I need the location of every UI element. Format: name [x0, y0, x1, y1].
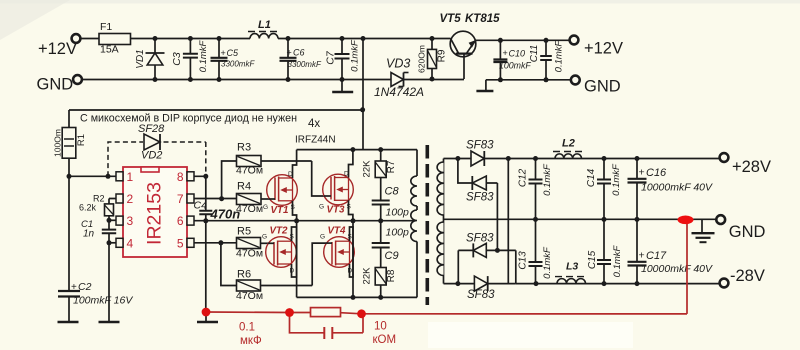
svg-text:+: + [221, 48, 226, 58]
svg-text:VT4: VT4 [328, 226, 347, 237]
svg-text:0.1mkF: 0.1mkF [350, 39, 361, 72]
svg-text:C17: C17 [646, 250, 667, 262]
svg-text:G: G [319, 204, 324, 211]
svg-text:S: S [347, 204, 352, 211]
svg-text:3: 3 [127, 214, 134, 228]
svg-text:+: + [503, 48, 508, 58]
svg-text:G: G [262, 234, 267, 241]
svg-text:R9: R9 [437, 49, 448, 62]
svg-text:0.1mkF: 0.1mkF [542, 163, 553, 196]
svg-text:0.1mkF: 0.1mkF [554, 39, 565, 72]
svg-text:22K: 22K [362, 267, 373, 285]
svg-text:C11: C11 [529, 45, 540, 63]
svg-text:C14: C14 [586, 168, 597, 187]
svg-text:2: 2 [127, 192, 134, 206]
svg-text:8: 8 [177, 170, 184, 184]
svg-text:KT815: KT815 [465, 13, 500, 25]
svg-text:10: 10 [374, 321, 387, 333]
svg-text:C13: C13 [518, 251, 529, 270]
svg-text:кОМ: кОМ [373, 334, 397, 346]
svg-text:C2: C2 [78, 281, 92, 293]
svg-text:VT3: VT3 [327, 205, 346, 216]
svg-text:3300mkF: 3300mkF [221, 60, 255, 69]
svg-text:47Ом: 47Ом [236, 203, 263, 215]
svg-text:D: D [344, 171, 349, 178]
svg-text:F1: F1 [100, 21, 112, 33]
svg-text:C5: C5 [227, 48, 239, 58]
svg-text:мкФ: мкФ [240, 335, 262, 347]
svg-text:620Om: 620Om [417, 45, 427, 73]
svg-text:С микосхемой в DIP корпусе дио: С микосхемой в DIP корпусе диод не нужен [80, 113, 297, 125]
svg-text:SF83: SF83 [467, 289, 495, 301]
svg-text:SF28: SF28 [138, 123, 165, 135]
svg-text:10000mkF 40V: 10000mkF 40V [641, 263, 713, 275]
svg-text:VT2: VT2 [270, 226, 289, 237]
svg-text:VD3: VD3 [386, 57, 410, 71]
svg-text:R6: R6 [237, 269, 251, 281]
svg-text:VD1: VD1 [135, 49, 146, 68]
svg-text:SF83: SF83 [466, 233, 494, 245]
svg-text:22K: 22K [362, 160, 373, 178]
svg-text:0.1: 0.1 [239, 322, 255, 334]
svg-text:+: + [71, 282, 77, 293]
svg-text:GND: GND [584, 78, 621, 96]
svg-text:0.1mkF: 0.1mkF [611, 163, 622, 196]
svg-text:47Ом: 47Ом [236, 165, 263, 177]
svg-text:+28V: +28V [732, 158, 771, 176]
svg-text:L2: L2 [562, 138, 575, 150]
svg-text:D: D [288, 171, 293, 178]
svg-text:7: 7 [177, 192, 184, 206]
svg-text:-28V: -28V [730, 267, 765, 285]
svg-text:C3: C3 [171, 52, 183, 66]
svg-text:+: + [639, 250, 645, 262]
svg-text:C16: C16 [646, 167, 667, 179]
svg-text:IR2153: IR2153 [144, 182, 166, 245]
svg-text:VT1: VT1 [271, 205, 289, 216]
svg-text:+: + [287, 48, 292, 58]
svg-text:6: 6 [177, 214, 184, 228]
svg-text:4: 4 [127, 236, 134, 250]
svg-text:D: D [290, 268, 295, 275]
svg-text:1: 1 [127, 170, 134, 184]
svg-text:5: 5 [177, 236, 184, 250]
svg-text:R7: R7 [386, 160, 397, 173]
svg-text:C15: C15 [587, 250, 598, 269]
svg-text:L1: L1 [258, 19, 271, 31]
svg-text:R4: R4 [237, 181, 251, 193]
svg-text:GND: GND [729, 223, 766, 241]
svg-text:0.1mkF: 0.1mkF [612, 244, 623, 277]
svg-text:C6: C6 [293, 48, 305, 58]
svg-text:G: G [320, 234, 325, 241]
svg-text:S: S [291, 204, 296, 211]
svg-text:GND: GND [37, 76, 74, 94]
svg-text:100mkF 16V: 100mkF 16V [73, 295, 133, 307]
svg-text:C8: C8 [385, 186, 400, 198]
svg-text:100Om: 100Om [53, 129, 63, 157]
svg-text:C7: C7 [325, 50, 337, 65]
svg-text:100mkF: 100mkF [499, 61, 531, 71]
svg-text:+: + [639, 167, 645, 179]
svg-text:47Ом: 47Ом [236, 290, 263, 302]
svg-text:100p: 100p [386, 207, 410, 219]
svg-text:R8: R8 [386, 269, 397, 282]
svg-text:+12V: +12V [38, 40, 77, 58]
svg-text:G: G [263, 204, 268, 211]
svg-text:R5: R5 [237, 226, 251, 238]
svg-text:S: S [290, 234, 295, 241]
svg-text:1N4742A: 1N4742A [374, 85, 424, 99]
svg-text:VD2: VD2 [141, 150, 162, 162]
svg-text:6.2k: 6.2k [79, 203, 97, 213]
svg-text:+12V: +12V [584, 40, 623, 58]
svg-text:SF83: SF83 [466, 192, 494, 204]
svg-text:47Ом: 47Ом [236, 248, 263, 260]
svg-text:C12: C12 [518, 168, 529, 187]
svg-text:15A: 15A [100, 44, 119, 56]
svg-text:VT5: VT5 [440, 13, 462, 25]
svg-text:100p: 100p [386, 227, 410, 239]
svg-text:0.1mkF: 0.1mkF [542, 246, 553, 279]
svg-text:C4: C4 [194, 200, 208, 212]
svg-text:S: S [348, 234, 353, 241]
svg-text:10000mkF 40V: 10000mkF 40V [641, 182, 713, 194]
svg-text:L3: L3 [566, 261, 578, 273]
svg-text:3300mkF: 3300mkF [288, 60, 322, 69]
svg-text:D: D [348, 268, 353, 275]
svg-text:C9: C9 [385, 250, 399, 262]
svg-text:R3: R3 [237, 142, 251, 154]
svg-text:1n: 1n [83, 229, 95, 240]
svg-text:0.1mkF: 0.1mkF [198, 39, 209, 72]
svg-text:IRFZ44N: IRFZ44N [295, 135, 336, 146]
svg-text:4x: 4x [308, 118, 320, 130]
svg-text:R1: R1 [76, 134, 87, 146]
svg-text:SF83: SF83 [466, 140, 494, 152]
svg-text:C10: C10 [509, 49, 526, 59]
